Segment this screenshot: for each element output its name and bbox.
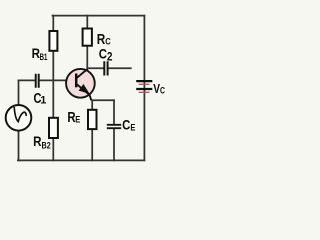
svg-text:2: 2 [107, 50, 113, 64]
svg-text:1: 1 [40, 95, 46, 107]
label VCC [153, 82, 165, 96]
wire input column lower (source to rail) [18, 131, 21, 161]
svg-text:C: C [122, 118, 130, 133]
wire bottom rail [18, 159, 144, 161]
wire emitter node horizontal [92, 99, 114, 101]
wire divider column: RB2 to bottom rail [52, 138, 54, 160]
transistor Q1 emitter lead with arrow [77, 84, 91, 100]
svg-text:C: C [99, 45, 107, 61]
wire divider column: rail to RB1 [52, 16, 54, 31]
label RE [67, 110, 80, 126]
resistor RB2 [49, 118, 58, 138]
svg-text:R: R [33, 133, 41, 149]
wire Re column lower [91, 129, 93, 160]
label C2 [99, 45, 113, 63]
wire top rail [53, 15, 145, 17]
wire Rc column: rail to Rc [86, 16, 88, 29]
wire Re column upper [91, 100, 93, 110]
capacitor CE plates [107, 125, 121, 128]
transistor Q1 body [66, 69, 95, 98]
resistor RB1 [49, 31, 57, 51]
svg-text:E: E [75, 115, 80, 125]
label RB1 [32, 45, 48, 62]
label C1 [34, 91, 47, 107]
svg-text:B1: B1 [40, 51, 48, 62]
battery VCC [136, 81, 152, 92]
capacitor C1 plates [36, 74, 39, 88]
wire input column upper (source to base wire) [18, 80, 20, 105]
wire Ce column upper [113, 100, 115, 124]
resistor RE [88, 110, 97, 129]
wire divider column: base junction to RB2 [52, 80, 54, 117]
wire Ce column lower [113, 129, 115, 161]
transistor Q1 collector lead [77, 69, 87, 78]
svg-text:E: E [130, 122, 135, 132]
label RB2 [33, 133, 51, 151]
wire output (right of C2) [109, 67, 131, 69]
label CE [122, 118, 135, 133]
wire collector branch to C2 [87, 67, 103, 69]
wire base right segment (C1 to transistor) [40, 79, 76, 81]
wire base left segment (to C1) [19, 79, 35, 81]
svg-text:C: C [160, 86, 166, 96]
wire Vcc column [143, 16, 145, 161]
transistor Q1 base bar [75, 74, 78, 88]
wire divider column: RB1 to base junction [52, 51, 54, 81]
svg-text:B2: B2 [42, 140, 51, 151]
capacitor C2 plates [104, 61, 107, 75]
label RC [97, 31, 111, 48]
AC source V1 [6, 105, 32, 131]
resistor RC [83, 29, 92, 46]
wire collector column: Rc to transistor [86, 46, 88, 71]
